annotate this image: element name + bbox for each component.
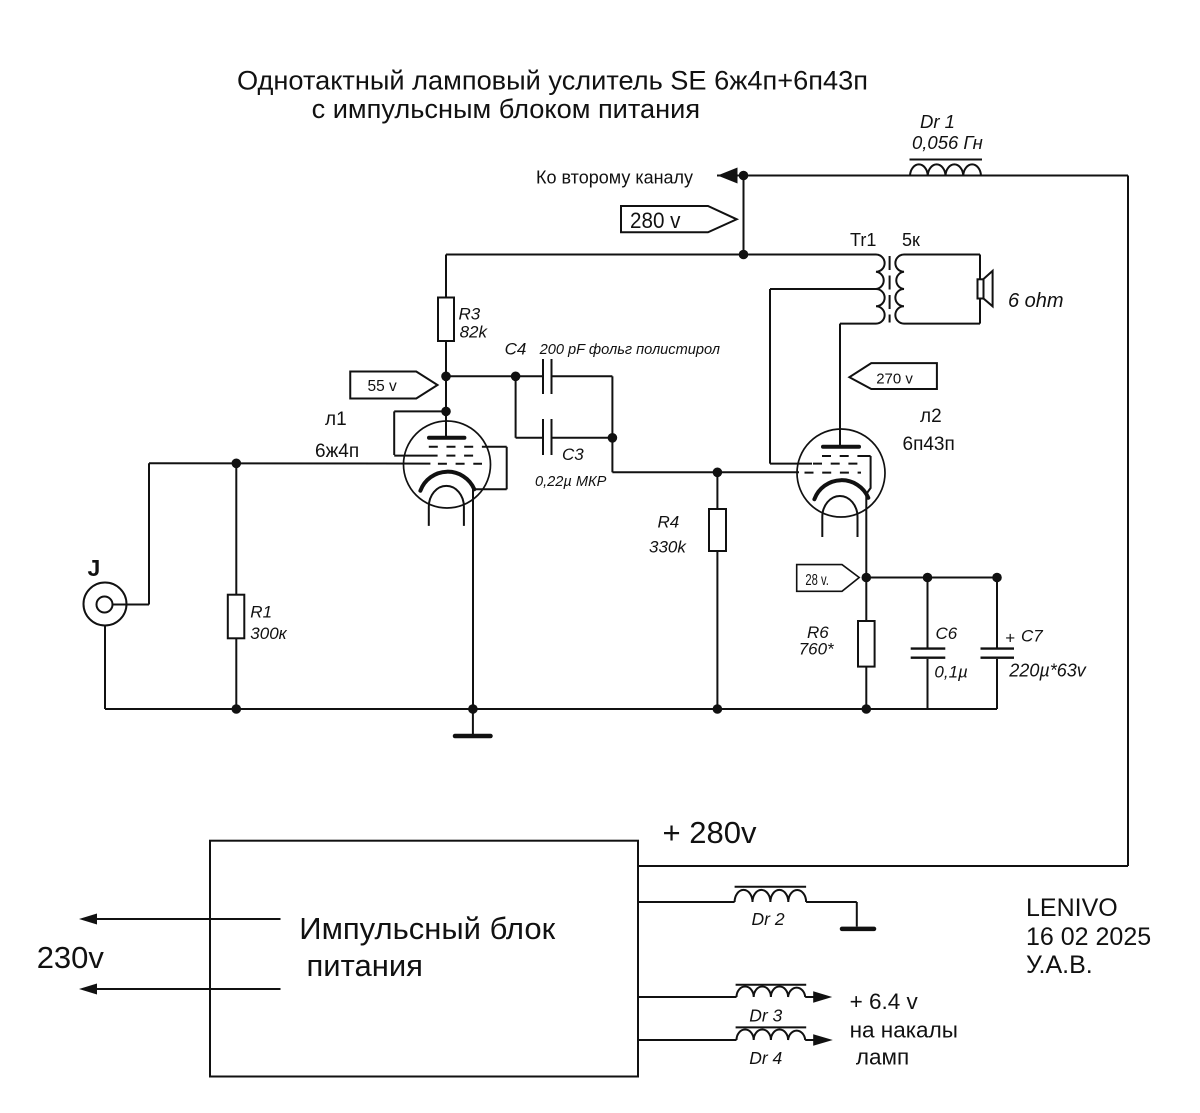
svg-text:82k: 82k [460, 323, 489, 342]
svg-text:ламп: ламп [856, 1045, 909, 1070]
svg-text:л1: л1 [325, 409, 347, 430]
svg-text:R4: R4 [658, 513, 680, 532]
svg-text:760*: 760* [799, 640, 835, 659]
svg-text:16 02 2025: 16 02 2025 [1026, 923, 1151, 951]
svg-text:Ко второму каналу: Ко второму каналу [536, 168, 693, 188]
svg-text:0,1µ: 0,1µ [934, 663, 968, 682]
svg-text:6п43п: 6п43п [903, 434, 955, 455]
svg-text:Dr 2: Dr 2 [752, 909, 785, 929]
svg-text:У.А.В.: У.А.В. [1026, 951, 1093, 979]
svg-text:Dr 3: Dr 3 [749, 1006, 782, 1026]
svg-text:200 pF фольг полистирол: 200 pF фольг полистирол [539, 342, 720, 358]
svg-text:л2: л2 [920, 406, 942, 427]
svg-text:Dr 1: Dr 1 [920, 111, 955, 132]
svg-text:питания: питания [307, 948, 423, 983]
svg-text:Tr1: Tr1 [850, 230, 876, 250]
svg-text:C4: C4 [505, 340, 527, 359]
svg-text:с импульсным блоком питания: с импульсным блоком питания [312, 93, 700, 124]
svg-text:0,056 Гн: 0,056 Гн [912, 132, 983, 153]
svg-text:0,22µ МКР: 0,22µ МКР [535, 474, 607, 490]
svg-text:+ 6.4 v: + 6.4 v [850, 989, 919, 1014]
svg-text:на накалы: на накалы [850, 1018, 958, 1043]
svg-text:R3: R3 [459, 305, 481, 324]
svg-text:220µ*63v: 220µ*63v [1008, 661, 1086, 681]
svg-text:+ 280v: + 280v [663, 815, 757, 850]
svg-text:5к: 5к [902, 230, 920, 250]
svg-text:J: J [88, 555, 101, 581]
svg-text:330k: 330k [649, 538, 687, 557]
svg-text:280 v: 280 v [630, 208, 681, 233]
svg-text:R1: R1 [250, 603, 272, 622]
svg-text:270 v: 270 v [876, 371, 913, 388]
svg-text:230v: 230v [37, 940, 105, 975]
svg-text:28 v.: 28 v. [805, 572, 829, 589]
svg-text:C6: C6 [936, 624, 958, 643]
svg-text:LENIVO: LENIVO [1026, 894, 1118, 922]
svg-text:C3: C3 [562, 445, 584, 464]
svg-text:55 v: 55 v [368, 378, 398, 395]
svg-text:+: + [1005, 629, 1015, 648]
svg-text:Dr 4: Dr 4 [749, 1048, 782, 1068]
svg-text:C7: C7 [1021, 627, 1043, 646]
svg-text:Импульсный блок: Импульсный блок [299, 911, 555, 946]
svg-text:6ж4п: 6ж4п [315, 441, 359, 462]
svg-text:Однотактный ламповый услитель: Однотактный ламповый услитель SE 6ж4п+6п… [237, 65, 868, 96]
svg-text:300к: 300к [250, 624, 287, 643]
svg-text:6 ohm: 6 ohm [1008, 290, 1064, 312]
